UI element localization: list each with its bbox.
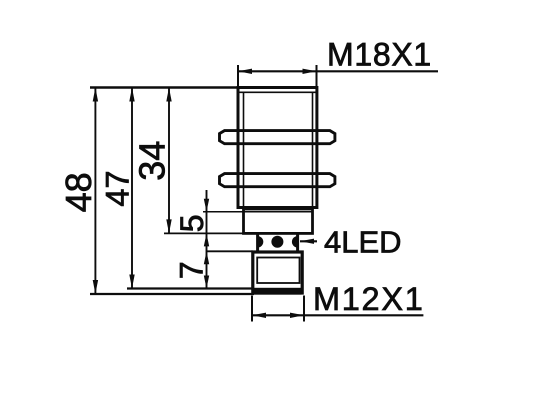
arrowhead 4LED leader: [300, 239, 314, 244]
LED band right edge: [296, 233, 299, 251]
arrowhead 7 bottom: [204, 276, 209, 289]
svg-text:47: 47: [100, 170, 136, 206]
arrowhead 5 bottom outside: [204, 233, 209, 246]
4LED leader line: [300, 240, 317, 242]
svg-text:34: 34: [132, 141, 173, 181]
extension line at connector top for 7: [207, 250, 253, 252]
arrowhead M12 right: [290, 313, 304, 318]
svg-text:M12X1: M12X1: [313, 281, 424, 317]
svg-text:48: 48: [58, 172, 99, 212]
arrowhead M18 left: [238, 69, 252, 74]
extension line at housing top for 5: [203, 211, 244, 213]
arrowhead 48 bottom: [93, 280, 98, 294]
svg-text:7: 7: [174, 261, 210, 279]
upper mounting nut flange: [220, 131, 335, 144]
LED band left edge: [256, 233, 259, 251]
M18 extension line left: [237, 65, 239, 87]
LED dot right: [292, 236, 303, 247]
rear housing inner top line: [244, 211, 313, 213]
connector end black band: [254, 288, 302, 295]
LED indicator dots (4LED): [252, 236, 303, 295]
M18 dimension and leader line: [238, 70, 438, 72]
barrel top chamfer line: [238, 91, 317, 93]
arrowhead 47 top: [129, 88, 134, 102]
M18 extension line right: [316, 65, 318, 87]
arrowhead M18 right: [303, 69, 317, 74]
dimension line 47: [131, 88, 133, 289]
dimension line 5 and 7 shared: [206, 190, 208, 289]
arrowhead 7 top: [204, 251, 209, 264]
arrowhead 34 bottom: [166, 219, 171, 233]
arrowhead 34 top: [166, 88, 171, 102]
extension line at housing bottom for 34: [164, 232, 244, 234]
LED dot left: [252, 236, 263, 247]
M12 connector inner face: [257, 258, 299, 284]
arrowhead 47 bottom: [129, 275, 134, 289]
dimension line 34: [168, 88, 170, 234]
sensor barrel M18 threaded body outline: [238, 88, 317, 208]
top extension line (overall length reference): [90, 86, 238, 89]
barrel thread relief line right: [312, 92, 314, 207]
M12 extension line left: [251, 296, 253, 322]
M12 dimension and leader line: [252, 314, 423, 316]
svg-text:M18X1: M18X1: [327, 36, 432, 72]
svg-text:5: 5: [174, 215, 210, 233]
arrowhead 48 top: [93, 88, 98, 102]
svg-text:4LED: 4LED: [324, 225, 402, 260]
arrowhead M12 left: [252, 313, 266, 318]
M12 extension line right: [303, 296, 305, 322]
arrowhead 5 top outside: [204, 199, 209, 212]
bottom extension line for 47 and 7: [127, 287, 253, 289]
dimension line 48: [94, 88, 96, 295]
bottom extension line for 48: [90, 293, 254, 295]
barrel thread relief line left: [243, 92, 245, 207]
LED dot center: [271, 236, 283, 248]
M12 connector outer body: [253, 252, 302, 293]
lower mounting nut flange: [220, 174, 335, 187]
rear housing section: [244, 209, 313, 233]
